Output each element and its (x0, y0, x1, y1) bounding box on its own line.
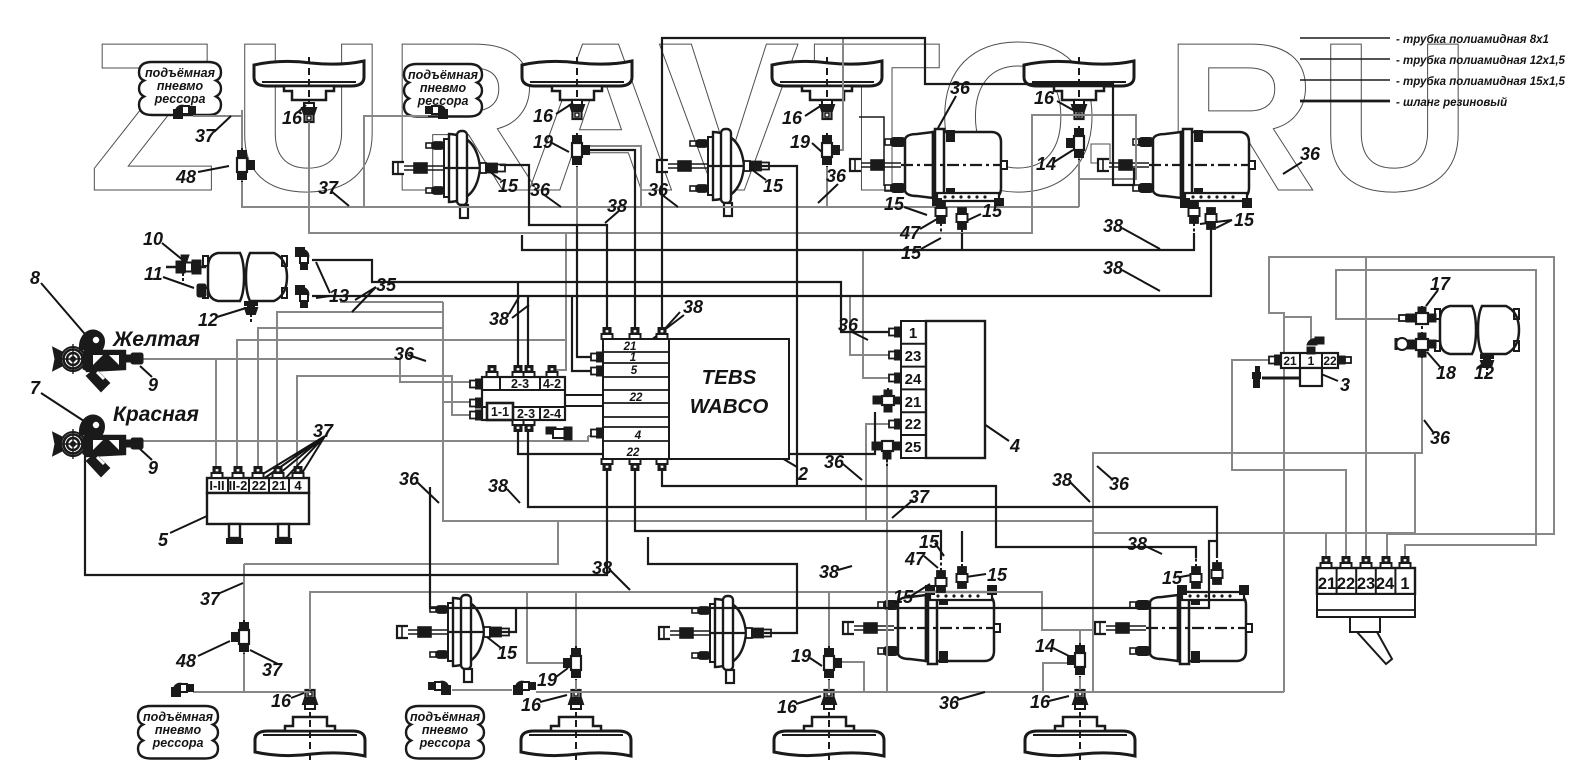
svg-text:Z: Z (88, 0, 218, 235)
svg-text:21: 21 (272, 478, 286, 493)
svg-text:14: 14 (1035, 636, 1055, 656)
manifold to TEBS connecting lines (565, 394, 603, 396)
svg-text:38: 38 (607, 196, 627, 216)
leader 48 bottom (198, 641, 230, 656)
svg-text:37: 37 (318, 178, 339, 198)
leader 15 chamber1 (486, 169, 501, 180)
leader 19 axle2 (552, 143, 569, 152)
watermark dot (1091, 144, 1110, 163)
svg-text:37: 37 (909, 487, 930, 507)
svg-text:2: 2 (797, 464, 808, 484)
leader 16 axle3 (805, 105, 822, 116)
svg-text:8: 8 (30, 268, 40, 288)
leader 9a (140, 366, 152, 377)
wire yellow head to manifold (137, 359, 477, 382)
elbow bottom middle (514, 682, 535, 694)
wire bottom axle2 lower stub (575, 680, 577, 690)
leader 38 near SB2b (1145, 546, 1162, 554)
svg-text:15: 15 (763, 176, 784, 196)
wire air spring 1 to tee 48 (193, 115, 242, 117)
tee fitting 19 bottom-2 (564, 646, 581, 680)
fitting 16 bottom-4 (1073, 690, 1087, 709)
svg-text:1: 1 (909, 325, 917, 342)
drain valve 12 left (245, 302, 257, 322)
leader 14 axle4 (1054, 150, 1073, 162)
leader 37 top left (214, 116, 231, 132)
leader 36 left-center (417, 482, 439, 503)
leader 2 TEBS (753, 441, 797, 467)
wire reservoir elbow 13b supply line to SB2 (312, 227, 1211, 296)
svg-text:рессора: рессора (152, 736, 204, 750)
ECU port 21 cross fitting (873, 388, 901, 412)
air spring label top-2 (404, 64, 482, 117)
tee fitting 48 bottom (232, 620, 249, 654)
leader 47 SB1 (920, 219, 937, 229)
ECU side stubs (889, 328, 901, 337)
svg-text:36: 36 (1430, 428, 1451, 448)
wheel saddle top-4 (1024, 57, 1134, 105)
spring brake chamber top-3 (850, 129, 1007, 207)
svg-text:38: 38 (1127, 534, 1147, 554)
hose fittings 15 above SB2b (1191, 557, 1202, 588)
wire bottom air spring 1 elbow (193, 691, 310, 693)
valve 5 top ports (212, 467, 223, 478)
svg-text:19: 19 (790, 132, 810, 152)
manifold bottom elbow (546, 427, 572, 440)
svg-text:36: 36 (1300, 144, 1321, 164)
wire manifold 1-1 branch (443, 401, 477, 403)
svg-text:15: 15 (919, 532, 940, 552)
leader 10 (162, 243, 184, 261)
tee fitting 19 top-3 (822, 133, 839, 167)
leader 37 fan (222, 436, 325, 499)
leader 38 mid bottom (838, 566, 852, 570)
wire valve5 port II-2 riser (237, 340, 566, 478)
svg-text:21: 21 (1318, 575, 1336, 593)
fitting 11 (197, 284, 206, 297)
svg-text:пневмо: пневмо (420, 81, 467, 95)
leader 15c SB1 (921, 238, 941, 249)
leader 38a right (1122, 228, 1160, 249)
leader 36 near yellow line (408, 355, 426, 361)
leader 38 above TEBS (605, 210, 620, 223)
svg-text:15: 15 (901, 243, 922, 263)
wire release valve port 1 to fitting 17 loop (1336, 270, 1536, 560)
wire axle2 tee riser (576, 167, 578, 234)
svg-text:пневмо: пневмо (422, 723, 469, 737)
svg-text:11: 11 (144, 264, 163, 284)
svg-text:подъёмная: подъёмная (143, 710, 214, 724)
air reservoir right (1435, 306, 1519, 354)
svg-text:WABCO: WABCO (690, 395, 769, 418)
svg-text:подъёмная: подъёмная (410, 710, 481, 724)
svg-text:37: 37 (195, 126, 216, 146)
svg-text:36: 36 (838, 315, 859, 335)
svg-text:36: 36 (939, 693, 960, 713)
svg-text:16: 16 (1034, 88, 1055, 108)
svg-text:38: 38 (819, 562, 839, 582)
wire valve3 left port down (1232, 360, 1346, 560)
release valve top stubs (1321, 557, 1332, 568)
leader 5 (170, 510, 220, 533)
svg-text:15: 15 (884, 194, 905, 214)
svg-text:47: 47 (904, 549, 926, 569)
fitting 10 (166, 255, 206, 285)
leader 38 center-right (1070, 482, 1090, 502)
wire tee48b vertical (243, 564, 245, 692)
svg-text:9: 9 (148, 375, 158, 395)
legend line polyamide 12x1.5 (1300, 58, 1390, 60)
leader 12 (217, 308, 246, 317)
wire TEBS port "5" stub (572, 296, 595, 371)
wheel saddle bottom-1 (255, 712, 365, 760)
wire SB1 second port stub (961, 233, 963, 250)
svg-text:5: 5 (631, 365, 638, 377)
coupling head 8 (yellow) (54, 331, 125, 392)
svg-text:37: 37 (200, 589, 221, 609)
valve 3 top elbow (1307, 337, 1324, 354)
elbow near air spring bottom-1 (172, 684, 193, 696)
svg-text:48: 48 (175, 651, 196, 671)
leader 16 bottom3 (796, 696, 821, 704)
leader 15 chamber2 (751, 169, 766, 180)
leader 36 right (1424, 420, 1433, 432)
wheel saddle bottom-3 (774, 712, 884, 760)
svg-text:23: 23 (1357, 575, 1375, 593)
wire chamber top-1 service to TEBS riser 1 (500, 165, 607, 339)
fitting 16 bottom-3 (822, 690, 836, 709)
TEBS left fittings (591, 353, 603, 362)
wire TEBS top riser 2 to tee19 axle2 (589, 150, 635, 339)
tee fitting 19 top-2 (572, 133, 589, 167)
wire tee19b2 branch (527, 592, 565, 663)
svg-text:38: 38 (489, 309, 509, 329)
tee fitting 14 top-4 (1067, 126, 1084, 160)
svg-text:2-4: 2-4 (543, 407, 561, 421)
wire axle2 tee branch gray (589, 146, 641, 207)
air reservoir left (pos.10-13 fittings) (203, 253, 287, 301)
fitting 16 top-2 (570, 100, 584, 119)
svg-text:38: 38 (1103, 216, 1123, 236)
svg-text:38: 38 (488, 476, 508, 496)
leader 19 bottom2 (556, 668, 568, 677)
svg-text:22: 22 (1323, 354, 1337, 368)
spring brake chamber bottom-3 (843, 586, 1000, 664)
svg-text:4: 4 (1009, 436, 1020, 456)
svg-text:- трубка полиамидная 8х1: - трубка полиамидная 8х1 (1396, 34, 1549, 46)
wire axle4 riser (1078, 126, 1080, 207)
fitting 16 top-1 (302, 103, 316, 122)
tee fitting 48 top (237, 148, 254, 182)
legend line polyamide 8x1 (1300, 37, 1390, 39)
leader 38b right (1122, 270, 1160, 291)
fitting 16 top-4 (1072, 100, 1086, 119)
svg-text:21: 21 (1283, 354, 1297, 368)
leader 18 (1427, 352, 1441, 368)
coupling head 7 (red) (54, 416, 125, 477)
svg-text:36: 36 (824, 452, 845, 472)
svg-text:25: 25 (905, 439, 922, 456)
svg-text:15: 15 (987, 565, 1008, 585)
leader 37 bottom2 (250, 650, 278, 664)
wire ECU port 25 to bottom elbow (536, 460, 887, 692)
fitting 16 bottom-1 (303, 690, 317, 709)
svg-text:24: 24 (905, 371, 922, 388)
svg-text:22: 22 (1337, 575, 1355, 593)
bracket frame near SB1 rod (859, 117, 884, 186)
wire chamber bottom-2 service (648, 537, 797, 633)
leader 16 bottom4 (1049, 696, 1069, 701)
svg-text:15: 15 (1162, 568, 1183, 588)
svg-text:подъёмная: подъёмная (408, 68, 479, 82)
wire TEBS bottom riser 2 to SB1b (635, 459, 941, 560)
svg-text:22: 22 (252, 478, 266, 493)
wire tee19b3 to bottom line (841, 662, 864, 692)
svg-text:16: 16 (1030, 692, 1051, 712)
wire valve5 port 21 riser (277, 312, 443, 478)
leader 8 (41, 283, 90, 340)
svg-text:37: 37 (313, 421, 334, 441)
wire bottom axle3 riser (828, 592, 830, 646)
svg-text:22: 22 (905, 416, 922, 433)
wire axle1 riser to trunk (309, 115, 1136, 233)
svg-text:рессора: рессора (154, 92, 206, 106)
elbow near air spring top-1 (174, 106, 195, 118)
wire gray y564 to trunk (244, 521, 558, 564)
svg-text:23: 23 (905, 348, 922, 365)
leader 16 bottom1 (291, 693, 304, 698)
leader 16 axle4 (1057, 101, 1073, 110)
wire TEBS top riser 3 big loop to SB2 (662, 38, 1134, 339)
leader 15 SB1b-1 (911, 584, 930, 596)
wire reservoir elbow 13a to ECU port 1 (312, 260, 893, 332)
svg-text:II-2: II-2 (229, 478, 248, 493)
svg-text:рессора: рессора (419, 736, 471, 750)
wire bottom axle4 stubs (1080, 630, 1093, 643)
wire TEBS bottom riser 3 to SB2b (662, 459, 1196, 558)
manifold left fittings (470, 380, 482, 389)
svg-text:36: 36 (530, 180, 551, 200)
svg-text:1-1: 1-1 (491, 405, 509, 419)
leader 37 bottom-left (220, 583, 243, 593)
leader 38 bottom center (610, 570, 630, 590)
leader 16 bottom2 (540, 695, 567, 702)
fitting 9 upper (126, 353, 143, 364)
leader 19 axle3 (812, 143, 823, 153)
svg-text:22: 22 (629, 392, 643, 404)
manifold top ports (487, 366, 498, 377)
wire TEBS port 4 stub (588, 435, 595, 437)
hose fittings 15 under SB2 (1189, 202, 1200, 233)
svg-text:I-II: I-II (209, 478, 224, 493)
svg-text:14: 14 (1036, 154, 1056, 174)
leader 37 under chamber1 (331, 191, 349, 206)
leader 17 (1426, 290, 1438, 306)
svg-text:15: 15 (498, 176, 519, 196)
wire manifold bottom riser 2 to SB2b (528, 420, 1217, 558)
svg-text:4-2: 4-2 (543, 377, 561, 391)
leader 15 chamber1b (487, 637, 501, 648)
svg-text:38: 38 (683, 297, 703, 317)
svg-text:16: 16 (782, 108, 803, 128)
elbow fittings 13 (296, 248, 308, 269)
wire SB1b second port (961, 531, 963, 562)
leader 36 bottom (957, 692, 985, 700)
svg-text:16: 16 (282, 108, 303, 128)
leader 35 (352, 287, 376, 312)
leader 36 right of SB2 (1283, 162, 1302, 174)
wire valve5 port 22 riser (258, 328, 443, 478)
svg-text:9: 9 (148, 458, 158, 478)
wheel saddle top-2 (522, 57, 632, 105)
leader 12 right (1477, 360, 1488, 368)
spring brake chamber bottom-4 (1095, 586, 1252, 664)
wire bottom line to y531 link (1326, 453, 1415, 533)
tee fitting 19 bottom-3 (824, 646, 841, 680)
fitting 16 top-3 (820, 100, 834, 119)
wire y692 extension (887, 691, 1284, 693)
svg-text:36: 36 (399, 469, 420, 489)
wire valve3 top elbow stub (1284, 317, 1311, 340)
svg-text:1: 1 (630, 352, 636, 364)
wire axle3 tee riser (826, 167, 828, 207)
wire bottom axle2 riser (575, 592, 577, 646)
svg-text:36: 36 (826, 166, 847, 186)
svg-text:10: 10 (143, 229, 163, 249)
leader 38 center-left pair (509, 297, 529, 318)
wire TEBS bottom riser 1 left loop (85, 447, 607, 575)
leader 38 center pair (642, 312, 684, 347)
svg-text:36: 36 (950, 78, 971, 98)
svg-text:16: 16 (533, 106, 554, 126)
wire manifold bottom riser 1 to ECU 21 (518, 412, 875, 454)
svg-text:пневмо: пневмо (157, 79, 204, 93)
wire bottom axle1 riser (309, 592, 311, 690)
leader 36 near ECU wires (852, 332, 868, 340)
leader 16 axle1 (297, 105, 306, 113)
brake chamber top-2 (single) (657, 129, 769, 216)
svg-text:Красная: Красная (113, 403, 199, 426)
svg-text:15: 15 (982, 201, 1003, 221)
svg-text:16: 16 (777, 697, 798, 717)
legend line polyamide 15x1.5 (1300, 79, 1390, 81)
leader 9b (140, 449, 152, 460)
svg-text:37: 37 (262, 660, 283, 680)
svg-text:36: 36 (394, 344, 415, 364)
svg-text:17: 17 (1430, 274, 1451, 294)
leader 15b SB1 (966, 214, 981, 221)
svg-text:- шланг резиновый: - шланг резиновый (1396, 97, 1507, 109)
brake chamber top-1 (single, pos.15 hose) (393, 131, 505, 218)
fitting 17 (tee on right reservoir) (1399, 306, 1436, 330)
wire chamber top-2 service down (760, 166, 797, 486)
hose fittings 15/47 above SB1b (936, 561, 947, 592)
wire air spring 2 elbow left (364, 116, 428, 207)
wire bottom trunk y592 (309, 592, 1079, 630)
leader 7 (41, 393, 90, 425)
leader 3 (1314, 371, 1338, 381)
wire TEBS port 1 line (577, 225, 595, 357)
wire manifold feed left vertical (443, 302, 1422, 521)
svg-text:18: 18 (1436, 363, 1456, 383)
svg-text:1: 1 (1400, 575, 1409, 593)
svg-text:- трубка полиамидная 15х1,5: - трубка полиамидная 15х1,5 (1396, 76, 1566, 88)
svg-text:4: 4 (294, 478, 302, 493)
svg-text:38: 38 (592, 558, 612, 578)
spring brake chamber top-4 (1098, 129, 1255, 207)
leader 36 above TEBS (661, 194, 678, 207)
leader 37 center (892, 500, 913, 518)
svg-text:38: 38 (1103, 258, 1123, 278)
leader 48 top (198, 166, 229, 172)
leader 13 x2 (316, 262, 330, 298)
valve 3 side stubs (1269, 356, 1281, 365)
wire valve5 port 4 riser (297, 376, 477, 478)
leader 19 bottom3 (810, 658, 822, 666)
leader 16 axle2 (556, 103, 573, 114)
leader 15 SB2b (1180, 574, 1197, 577)
wire main gray trunk right loop (242, 110, 1079, 207)
svg-text:3: 3 (1340, 375, 1350, 395)
svg-text:1: 1 (1308, 354, 1315, 368)
TEBS bottom ports (602, 459, 613, 470)
wheel saddle bottom-4 (1025, 712, 1135, 760)
brake chamber bottom-1 (single) (397, 595, 509, 682)
air spring label bottom-2 (406, 706, 484, 759)
svg-text:15: 15 (497, 643, 518, 663)
svg-text:7: 7 (30, 378, 41, 398)
svg-text:подъёмная: подъёмная (145, 66, 216, 80)
svg-text:2-3: 2-3 (517, 407, 535, 421)
wire axle3 tee branch up (839, 38, 843, 150)
svg-text:- трубка полиамидная 12х1,5: - трубка полиамидная 12х1,5 (1396, 55, 1566, 67)
manifold bottom ports (513, 420, 524, 431)
fitting 18 (cross on right reservoir) (1396, 332, 1436, 358)
svg-text:пневмо: пневмо (155, 723, 202, 737)
svg-text:24: 24 (1376, 575, 1395, 593)
svg-text:5: 5 (158, 530, 169, 550)
legend line rubber hose (1300, 100, 1390, 103)
leader 15a SB1 (904, 207, 927, 215)
svg-text:48: 48 (175, 167, 196, 187)
svg-text:38: 38 (1052, 470, 1072, 490)
leader 15 SB1b-3 (966, 574, 986, 577)
wire big right loop to release valve 24 (1093, 257, 1554, 692)
svg-text:15: 15 (893, 587, 914, 607)
wire SB1 second port line (522, 233, 1194, 250)
svg-text:21: 21 (905, 394, 922, 411)
leader 47b (924, 556, 938, 568)
wire release port21 to loop vertical (1093, 533, 1326, 560)
svg-text:35: 35 (376, 275, 397, 295)
wire manifold riser 4-2 (527, 296, 529, 377)
leader 15 SB1b-2 (935, 543, 944, 556)
elbow near air spring bottom-2 (429, 682, 450, 694)
wire valve5 port I-II riser (215, 359, 217, 478)
wire tee14b branch (1043, 663, 1068, 692)
svg-text:13: 13 (329, 286, 349, 306)
leader 38 left-center (507, 489, 520, 503)
svg-text:19: 19 (791, 646, 811, 666)
tee fitting 14 bottom-4 (1068, 643, 1085, 677)
svg-text:22: 22 (626, 447, 640, 459)
wire bottom air spring 2 elbow link (452, 689, 512, 691)
leader 15 SB2 (1200, 220, 1232, 228)
TEBS top ports (602, 328, 613, 339)
wire chamber bottom-1 service (499, 608, 516, 632)
svg-text:4: 4 (634, 430, 642, 442)
svg-text:19: 19 (537, 670, 557, 690)
